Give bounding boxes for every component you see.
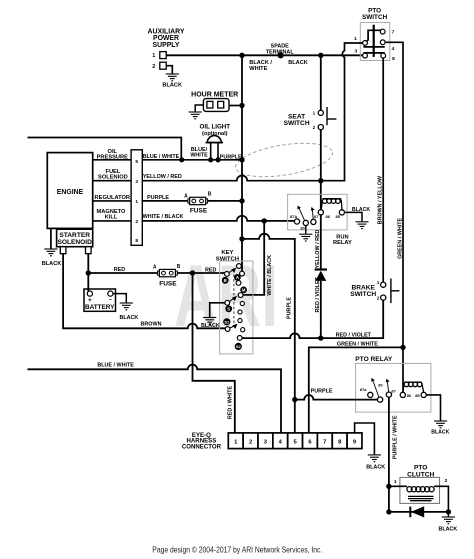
node purple tee (239, 157, 244, 162)
wire hour meter right to node (229, 105, 242, 107)
svg-text:BATTERY: BATTERY (85, 304, 115, 311)
wire seat switch top (320, 55, 322, 110)
wire run relay 86 down to diode (yellow/red) (320, 215, 322, 269)
wire diode row (389, 511, 449, 513)
PTO relay contact 30 (378, 397, 383, 402)
battery (84, 289, 116, 311)
svg-text:30: 30 (300, 226, 305, 231)
svg-text:BLACK: BLACK (42, 261, 62, 267)
svg-text:2: 2 (445, 478, 448, 484)
run relay arm 30-87a (299, 208, 305, 221)
svg-text:BLACK /: BLACK / (249, 60, 272, 66)
svg-text:RED / VIOLET: RED / VIOLET (336, 332, 372, 338)
wire blue/white row pin5 (142, 159, 242, 161)
wire red from starter to key B (87, 254, 89, 273)
key switch contact A right (240, 271, 245, 276)
svg-text:S: S (227, 306, 230, 311)
wire PTO pin1 hook down to node (324, 43, 363, 181)
svg-text:1: 1 (377, 280, 380, 285)
svg-text:SWITCH: SWITCH (284, 120, 310, 127)
wire PTO pin4 right and down (green/white) (385, 42, 403, 392)
node diode left (386, 509, 391, 514)
PTO relay arm 87 (387, 382, 388, 393)
node oil light leg 2 (215, 157, 220, 162)
wire clutch pin1 (389, 485, 407, 487)
key switch contact S1 (225, 327, 230, 332)
svg-text:S1: S1 (224, 319, 230, 324)
node blue/white feeder (179, 157, 184, 162)
svg-text:2: 2 (135, 219, 138, 225)
svg-text:1: 1 (135, 199, 138, 205)
svg-text:TERMINAL: TERMINAL (266, 49, 295, 55)
wire white/black down to key switch M (243, 221, 264, 295)
wire yellow/red row pin3 (142, 176, 318, 181)
fuse F1 engine (184, 191, 212, 214)
svg-text:WHITE: WHITE (190, 153, 208, 159)
node junction black/white (239, 53, 244, 58)
key switch contact M (238, 293, 243, 298)
svg-text:85: 85 (415, 393, 420, 398)
run relay arm 87 (311, 210, 314, 220)
PTO relay contact 87 (386, 392, 391, 397)
svg-text:PURPLE: PURPLE (311, 388, 333, 394)
svg-text:87a: 87a (360, 387, 367, 392)
wire red/white down to connector cell1 (193, 273, 235, 433)
svg-text:B: B (224, 278, 227, 283)
svg-text:YELLOW / RED: YELLOW / RED (315, 229, 321, 268)
svg-text:RED / VIOLET: RED / VIOLET (315, 276, 321, 312)
wire purple row pin1 (142, 200, 189, 202)
svg-text:87: 87 (391, 388, 396, 393)
svg-text:BLACK: BLACK (119, 315, 138, 321)
wire aux pin2 to ground (166, 66, 172, 74)
wire engine ground (50, 228, 52, 248)
key switch contact A top (237, 264, 242, 269)
svg-text:2: 2 (152, 64, 155, 70)
wire aux pin1 to PTO switch pin3 (black/white, black) (166, 54, 363, 56)
svg-text:BLACK: BLACK (352, 207, 370, 213)
key switch badge S2 (235, 343, 242, 350)
svg-text:BLACK: BLACK (366, 464, 385, 470)
wire clutch pin2 (434, 486, 448, 512)
key switch dashed arm line (233, 270, 235, 327)
starter solenoid (57, 229, 93, 247)
svg-text:SOLENOID: SOLENOID (57, 239, 92, 246)
svg-text:PRESSURE: PRESSURE (97, 155, 128, 161)
svg-text:FUSE: FUSE (159, 280, 177, 287)
wire engine magneto kill row (93, 220, 131, 222)
wire white/black row pin2 (142, 216, 294, 221)
wire key S to ground (210, 303, 225, 317)
wire engine regulator row (93, 200, 131, 202)
wire black/white vertical to key switch A (241, 55, 243, 271)
aux pin 1 (160, 52, 166, 59)
svg-text:30: 30 (378, 382, 383, 387)
svg-text:FUSE: FUSE (190, 207, 208, 214)
dashed optional ellipse (233, 138, 334, 183)
wire engine oil pressure row (93, 159, 131, 161)
svg-text:ENGINE: ENGINE (57, 189, 84, 196)
svg-text:2: 2 (313, 125, 316, 130)
wire connector cell9 to ground (355, 423, 375, 454)
svg-text:RED: RED (205, 267, 216, 273)
seat switch bar (326, 107, 328, 125)
seat switch contact 1 (318, 110, 323, 115)
diode D1 (315, 268, 327, 270)
run relay contact 30 (303, 220, 308, 225)
key switch contact small 3 (238, 318, 242, 322)
svg-text:87: 87 (314, 214, 319, 219)
PTO switch pin 7 (380, 29, 385, 34)
svg-text:BROWN: BROWN (141, 321, 162, 327)
node purple row tee (239, 198, 244, 203)
key switch arm B-A (227, 270, 233, 274)
svg-text:8: 8 (392, 56, 395, 62)
svg-text:RED: RED (114, 267, 125, 273)
svg-text:+: + (88, 297, 92, 304)
ground clutch (447, 512, 449, 517)
svg-text:PURPLE / WHITE: PURPLE / WHITE (393, 415, 399, 459)
svg-text:7: 7 (323, 440, 326, 446)
node yellow/red + seat + pto1 (318, 178, 323, 183)
svg-text:4: 4 (392, 46, 395, 52)
PTO switch pin 3 (363, 53, 368, 58)
wire blue/white feeder from left (28, 138, 182, 160)
svg-text:OIL LIGHT: OIL LIGHT (200, 124, 231, 131)
wire PTO relay 85 to ground (426, 395, 440, 421)
svg-text:KEY: KEY (221, 250, 233, 256)
PTO switch cross bars (363, 46, 384, 48)
svg-text:RED / WHITE: RED / WHITE (228, 385, 234, 419)
svg-text:GREEN / WHITE: GREEN / WHITE (337, 342, 378, 348)
svg-text:PURPLE: PURPLE (287, 297, 293, 319)
ground hour meter (189, 112, 202, 119)
svg-text:BLACK: BLACK (162, 83, 182, 89)
svg-text:PTO RELAY: PTO RELAY (355, 356, 393, 363)
svg-text:2: 2 (249, 440, 252, 446)
svg-text:BLACK: BLACK (288, 60, 308, 66)
key switch badge B (222, 277, 229, 284)
wire engine fuel solenoid row (93, 180, 131, 182)
wire brake 2 down to red/violet row (242, 300, 383, 338)
svg-text:YELLOW / RED: YELLOW / RED (143, 174, 182, 180)
svg-text:WHITE / BLACK: WHITE / BLACK (143, 214, 184, 220)
svg-text:BLACK: BLACK (201, 323, 220, 329)
svg-text:3: 3 (355, 49, 358, 55)
svg-text:1: 1 (394, 479, 397, 485)
svg-text:REGULATOR: REGULATOR (95, 195, 131, 201)
node junction seat switch (318, 53, 323, 58)
run relay (288, 194, 348, 230)
wire seat switch to run relay 86 (320, 130, 322, 210)
PTO switch step link (366, 30, 380, 41)
wire purple row to PTO relay 30 (295, 395, 378, 400)
svg-text:1: 1 (354, 36, 357, 42)
key switch badge M (240, 287, 247, 294)
svg-text:A: A (184, 194, 188, 200)
svg-text:A: A (153, 265, 157, 271)
wire brown from starter to key S1 (63, 254, 225, 329)
node hour meter (239, 103, 244, 108)
svg-text:HOUR METER: HOUR METER (191, 92, 238, 99)
brake switch contact 1 (381, 282, 386, 287)
svg-text:86: 86 (407, 393, 412, 398)
PTO switch center bar (373, 25, 375, 57)
PTO switch pin 8 (381, 53, 386, 58)
svg-text:RELAY: RELAY (333, 240, 352, 246)
svg-text:GREEN / WHITE: GREEN / WHITE (397, 217, 403, 258)
node oil light leg 1 (208, 157, 213, 162)
key switch contact B (225, 272, 230, 277)
wire PTO pin8 down to brake 1 (brown/yellow) (382, 58, 384, 282)
node red/violet (318, 335, 323, 340)
svg-text:BLUE / WHITE: BLUE / WHITE (97, 363, 134, 369)
node white/black branch (262, 218, 267, 223)
svg-text:5: 5 (135, 159, 138, 165)
auxiliary power supply label (148, 29, 185, 49)
svg-text:BLUE / WHITE: BLUE / WHITE (143, 154, 180, 160)
svg-text:CONNECTOR: CONNECTOR (182, 444, 222, 451)
PTO switch pin 1 (363, 41, 368, 46)
svg-text:7: 7 (392, 30, 395, 36)
svg-text:SUPPLY: SUPPLY (153, 42, 180, 49)
key switch contact small 1 (240, 301, 244, 305)
run relay coil (321, 199, 342, 210)
spade terminal (278, 52, 284, 58)
svg-text:BROWN / YELLOW: BROWN / YELLOW (378, 175, 384, 224)
svg-text:Page design © 2004-2017 by ARI: Page design © 2004-2017 by ARI Network S… (152, 546, 322, 555)
node purple branch (239, 236, 244, 241)
svg-text:87A: 87A (290, 214, 297, 219)
key switch contact S2 (237, 336, 242, 341)
wire diode to red/violet node (320, 281, 322, 338)
key switch badge S1 (223, 318, 230, 325)
brake switch contact 2 (381, 295, 386, 300)
svg-text:STARTER: STARTER (59, 232, 90, 239)
node clutch pin1 (386, 484, 391, 489)
wire purple branch down to connector cell5 (242, 234, 295, 433)
clutch coil (407, 487, 434, 501)
wire clutch pin1 down to diode row (388, 486, 390, 512)
svg-text:S2: S2 (236, 344, 242, 349)
key switch contact small 2 (238, 310, 242, 314)
wire PTO relay 87 down to clutch (purple/white) (388, 397, 390, 486)
key switch arm S1 (228, 326, 235, 329)
engine connector column (131, 150, 142, 246)
PTO relay contact 87a (368, 392, 373, 397)
svg-text:3: 3 (135, 179, 138, 185)
aux pin 2 (160, 62, 166, 69)
key switch badge A (234, 274, 241, 281)
wire run relay 85 to ground (345, 212, 363, 221)
svg-text:1: 1 (313, 111, 316, 116)
svg-text:SOLENIOD: SOLENIOD (98, 175, 128, 181)
key switch badge S (225, 305, 232, 312)
svg-text:SWITCH: SWITCH (362, 14, 388, 21)
key switch contact small 4 (241, 328, 245, 332)
svg-text:B: B (208, 191, 212, 197)
svg-text:B: B (177, 264, 181, 270)
svg-text:2: 2 (377, 296, 380, 301)
ground aux (166, 74, 179, 81)
svg-text:86: 86 (326, 214, 331, 219)
key switch arm S (227, 298, 234, 303)
svg-text:SWITCH: SWITCH (350, 291, 376, 298)
fuse F2 battery (153, 264, 181, 287)
key switch contact below A (236, 281, 241, 286)
PTO relay contact 85 (421, 392, 426, 397)
brake switch bar (390, 279, 392, 304)
run relay contact 86 (318, 210, 323, 215)
run relay contact 85 (339, 210, 344, 215)
svg-text:85: 85 (336, 214, 341, 219)
PTO relay arm 30 (373, 381, 379, 398)
diode D2 (409, 507, 411, 518)
wire battery minus to ground (113, 294, 126, 303)
run relay contact 87 (311, 219, 316, 224)
svg-text:M: M (242, 288, 246, 293)
wire hour meter left to ground (195, 105, 203, 112)
svg-text:1: 1 (152, 53, 155, 59)
svg-text:BLACK: BLACK (438, 526, 457, 532)
svg-text:WHITE / BLACK: WHITE / BLACK (267, 255, 273, 296)
svg-text:PURPLE: PURPLE (147, 195, 169, 201)
svg-text:BLACK: BLACK (431, 429, 449, 435)
node diode right (446, 509, 451, 514)
run relay contact 87a (294, 219, 299, 224)
engine (47, 153, 92, 229)
svg-text:KILL: KILL (105, 215, 118, 221)
PTO relay coil (403, 382, 424, 392)
PTO relay contact 86 (400, 392, 405, 397)
key switch contact S (225, 300, 230, 305)
PTO switch pin 4 (380, 40, 385, 45)
svg-text:8: 8 (135, 238, 138, 244)
ground engine (44, 249, 57, 256)
wire run relay 30 to ground (305, 226, 307, 234)
wire blue/white bottom row to connector cell4 (28, 365, 282, 433)
seat switch contact 2 (318, 125, 323, 130)
wire oil light legs (210, 143, 212, 160)
wire green/white branch to connector cell6 (309, 347, 403, 433)
svg-text:WHITE: WHITE (249, 66, 267, 72)
